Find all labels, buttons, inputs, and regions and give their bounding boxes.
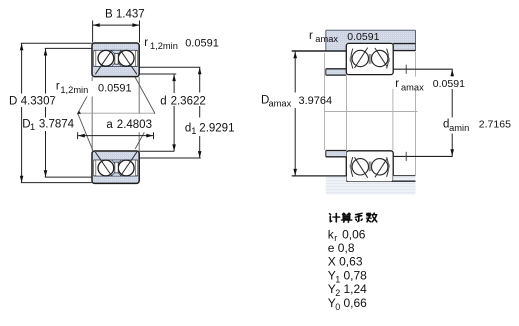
svg-text:a: a [106, 119, 113, 131]
label damin 2.7165 (white box) [441, 118, 518, 133]
glyph 算 [342, 213, 352, 222]
ball left (right dwg bottom) [352, 159, 368, 175]
dimension D: extension lines [21, 42, 92, 44]
svg-text:X 0,63: X 0,63 [328, 255, 363, 269]
svg-text:1,24: 1,24 [344, 282, 368, 296]
dimension a: line, ticks, arrows [78, 135, 154, 137]
bearing cross-section top half [92, 43, 139, 77]
housing bore line right of bearing bottom [393, 180, 415, 182]
label r amax 0.0591 (right, white box) [392, 77, 468, 89]
svg-text:1,2min: 1,2min [150, 41, 178, 51]
dimension B: extension lines [92, 21, 94, 43]
glyph 数 [367, 213, 377, 222]
dimension d: vertical line [173, 74, 175, 93]
housing abutment ring right [393, 44, 415, 50]
title 计算系数 (drawn glyphs) [330, 213, 377, 222]
contact diagonals [355, 48, 368, 68]
svg-text:amax: amax [315, 34, 338, 44]
cage marks [368, 162, 370, 172]
svg-text:amax: amax [269, 99, 292, 109]
svg-text:amax: amax [401, 82, 424, 92]
housing outline edges [326, 29, 416, 31]
svg-text:0: 0 [335, 302, 340, 312]
svg-text:3.9764: 3.9764 [299, 95, 333, 107]
contact diagonal through right ball [120, 50, 136, 74]
housing shoulder line left bottom (Da extension) [292, 175, 347, 177]
ball right (right dwg top) [372, 50, 388, 66]
housing abutment ring right (bottom, faint) [393, 176, 415, 182]
svg-text:r: r [395, 78, 399, 90]
svg-text:r: r [56, 81, 60, 93]
ball left (right dwg top) [352, 50, 368, 66]
housing shoulder line right bottom [393, 175, 415, 177]
svg-text:1: 1 [335, 274, 340, 284]
dimension damin: vertical line [451, 69, 453, 76]
cage bar (bottom half) [115, 162, 118, 173]
ball right (top half) [118, 50, 134, 66]
housing bottom band (faint) [326, 182, 416, 195]
wire: gray vertical extension left bearing right edge [138, 77, 140, 151]
dimension B: line and arrows [93, 24, 140, 26]
shaft shoulder line right (da extension, top) [393, 68, 453, 70]
dimension Da: vertical line [294, 51, 296, 92]
ball left (top half) [98, 50, 114, 66]
svg-text:1,2min: 1,2min [60, 85, 88, 95]
contact line lower-right ray [135, 113, 155, 149]
svg-text:0.0591: 0.0591 [98, 82, 132, 94]
bearing cross-section bottom half [92, 151, 139, 183]
svg-text:d: d [160, 95, 166, 107]
contact diagonal through left ball [95, 50, 112, 74]
contact diagonal through left ball (bottom) [95, 152, 112, 176]
housing bore line right of bearing [393, 43, 415, 45]
housing top band [326, 30, 416, 43]
contact line upper-right ray [135, 77, 155, 113]
dimension d: extension lines [139, 73, 176, 75]
svg-text:r: r [309, 30, 313, 42]
dimension D1: vertical line broken by texts [45, 49, 47, 94]
housing shoulder block left [326, 43, 347, 51]
svg-text:e 0,8: e 0,8 [328, 241, 355, 255]
gray center line right drawing [324, 110, 417, 112]
svg-text:4.3307: 4.3307 [21, 95, 56, 107]
shaft abutment bar left (bottom) [326, 151, 347, 157]
contact line lower-left ray [78, 113, 93, 150]
svg-text:D: D [9, 95, 17, 107]
shaft shoulder line right (da extension, bottom) [393, 155, 453, 157]
cage marks [368, 54, 370, 64]
dimension D1: extension lines [45, 47, 92, 49]
contact diagonal through right ball (bottom) [120, 152, 136, 176]
svg-text:0.0591: 0.0591 [433, 78, 465, 90]
svg-text:0,66: 0,66 [344, 296, 368, 310]
svg-text:0.0591: 0.0591 [185, 37, 219, 49]
svg-text:0.0591: 0.0591 [347, 31, 379, 43]
svg-text:2.7165: 2.7165 [479, 119, 511, 131]
svg-text:2: 2 [335, 288, 340, 298]
ball right (right dwg bottom) [372, 159, 388, 175]
glyph 系 [355, 213, 362, 222]
dimension d1: vertical line [199, 67, 201, 92]
svg-text:2.4803: 2.4803 [117, 119, 152, 131]
cage bar (top half) [115, 53, 118, 64]
tick on da line (top) [405, 65, 407, 74]
contact diagonals [355, 157, 368, 177]
glyph 计 [330, 213, 340, 222]
wire: gray center line left drawing [78, 112, 155, 114]
gray verticals right drawing [324, 53, 326, 150]
svg-text:1: 1 [30, 122, 35, 132]
housing shoulder line left (Da extension) [292, 50, 347, 52]
shaft abutment bar left (top) [326, 69, 347, 75]
svg-text:amin: amin [449, 123, 469, 133]
node: left contact crossing arrow [77, 111, 81, 115]
dimension D: vertical line broken by text [21, 43, 23, 93]
mounted bearing (bottom) [346, 151, 393, 182]
ball right (bottom half) [118, 160, 134, 176]
svg-text:r: r [144, 37, 148, 49]
label r 1,2min 0.0591 (middle-left) [54, 81, 131, 97]
label box a 2.4803 [103, 114, 157, 132]
dimension d1: extension lines [139, 66, 200, 68]
housing shoulder line right [393, 50, 415, 52]
svg-text:2.3622: 2.3622 [171, 95, 206, 107]
tick on da line (bottom) [405, 152, 407, 161]
mounted bearing (top) [346, 43, 393, 74]
svg-text:2.9291: 2.9291 [199, 123, 234, 135]
contact line upper-left ray [78, 94, 89, 114]
svg-text:0,06: 0,06 [342, 227, 366, 241]
svg-text:3.7874: 3.7874 [39, 118, 75, 130]
svg-text:0,78: 0,78 [344, 268, 368, 282]
wire: gray vertical extension left bearing left edge [91, 77, 93, 151]
svg-text:B 1.437: B 1.437 [105, 8, 145, 20]
svg-text:1: 1 [191, 126, 196, 136]
housing shoulder block left (bottom, faint) [326, 176, 347, 182]
ball left (bottom half) [98, 160, 114, 176]
